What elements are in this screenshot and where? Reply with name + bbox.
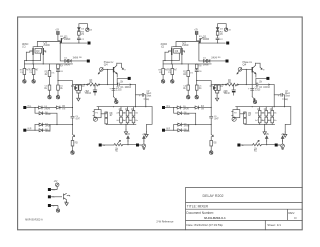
pad P4 xyxy=(48,188,56,191)
svg-text:R17: R17 xyxy=(82,85,85,88)
node row3 xyxy=(56,124,57,125)
svg-text:REV:: REV: xyxy=(288,211,295,215)
wire row1b xyxy=(43,107,56,109)
wire row3 xyxy=(35,124,73,126)
svg-text:1M: 1M xyxy=(62,108,65,110)
svg-text:2N3639: 2N3639 xyxy=(64,37,70,41)
svg-text:1%: 1% xyxy=(20,72,23,74)
bus upper xyxy=(97,106,152,108)
transistor Q7 xyxy=(63,193,69,204)
pad J1 xyxy=(23,106,32,109)
wire right loop xyxy=(147,107,153,132)
transistor Q1 xyxy=(60,37,64,43)
ground xyxy=(32,79,35,83)
node bus3 xyxy=(145,106,146,107)
wire r24 to q4 col xyxy=(100,84,114,86)
wire base drop xyxy=(107,69,109,84)
svg-text:R14: R14 xyxy=(60,65,63,68)
svg-text:R15: R15 xyxy=(71,85,74,88)
node rv2 xyxy=(72,124,73,125)
wire right col join xyxy=(77,90,80,95)
ground xyxy=(71,150,74,154)
diode D4 xyxy=(75,87,77,90)
ground xyxy=(142,144,146,150)
svg-text:2N3640: 2N3640 xyxy=(43,43,49,47)
resistor bank col1 xyxy=(119,107,123,116)
rail upper xyxy=(24,53,40,60)
svg-text:1N4148: 1N4148 xyxy=(64,65,70,67)
capacitor C14 xyxy=(109,86,122,91)
svg-text:(C): (C) xyxy=(22,45,25,49)
svg-text:+15V: +15V xyxy=(54,181,58,183)
wire collector loop xyxy=(117,63,122,67)
wire to pad xyxy=(71,60,87,62)
node rail xyxy=(84,84,85,85)
diode D7 xyxy=(38,123,51,127)
ground xyxy=(56,208,59,212)
resistor R4 xyxy=(78,31,85,35)
svg-text:Sheet: 1/1: Sheet: 1/1 xyxy=(267,223,281,227)
pad P6 xyxy=(48,204,55,207)
svg-text:Date: 8/24/2012 (07:33:59p: Date: 8/24/2012 (07:33:59p xyxy=(186,223,223,227)
diode D2 xyxy=(68,57,78,63)
wire row4b xyxy=(44,125,50,131)
wire left col drops xyxy=(24,61,33,69)
svg-text:22k: 22k xyxy=(123,113,126,115)
wire p6 xyxy=(51,206,58,209)
capacitor C17 xyxy=(136,90,152,107)
node branch xyxy=(57,80,58,81)
svg-text:10u: 10u xyxy=(44,87,47,90)
right channel (duplicate of left) xyxy=(159,24,291,155)
ground xyxy=(65,200,68,205)
connector J3 xyxy=(86,28,93,32)
wire out3 xyxy=(139,141,144,145)
wire pot drop xyxy=(97,107,99,110)
wire row1c xyxy=(61,107,73,109)
wire pot out xyxy=(101,112,106,114)
rail lower xyxy=(24,63,72,65)
diode D1 xyxy=(64,58,70,67)
node base xyxy=(107,69,108,70)
node rail2-q2 xyxy=(33,63,34,64)
wire top loop xyxy=(79,24,88,28)
capacitor C9 xyxy=(71,116,80,124)
wire base Q1 xyxy=(37,42,61,47)
svg-text:Document Number:: Document Number: xyxy=(186,211,214,215)
wire pwr stub1 xyxy=(127,141,129,145)
svg-text:+15V: +15V xyxy=(126,134,130,136)
diode D6 xyxy=(38,112,51,116)
resistor R16 xyxy=(56,106,66,110)
resistor R30 xyxy=(105,112,113,118)
emitter hook e xyxy=(121,67,126,71)
svg-text:R28: R28 xyxy=(75,142,78,144)
capacitor bank col1 xyxy=(116,112,126,124)
resistor R15 xyxy=(71,85,78,90)
wire row4 xyxy=(26,129,38,131)
wire row3 left xyxy=(34,125,36,131)
input connector P1 xyxy=(98,68,103,74)
wire left lead drop xyxy=(25,52,27,60)
bus lower xyxy=(106,123,136,125)
capacitor C2 xyxy=(77,35,84,43)
wire emitter row xyxy=(117,78,127,84)
wire right columns rail xyxy=(73,83,89,86)
capacitor C5 xyxy=(57,85,64,90)
wire right vert xyxy=(72,108,74,117)
wire q4 column xyxy=(113,72,115,96)
wire emitter run xyxy=(60,43,65,61)
resistor R11 xyxy=(45,71,55,77)
trimpot R31 xyxy=(114,140,123,152)
wire mid gnd stubs xyxy=(50,90,59,95)
node out xyxy=(127,144,128,145)
ground xyxy=(145,132,148,137)
power +15V xyxy=(126,134,130,141)
svg-text:2.2/25: 2.2/25 xyxy=(116,89,122,92)
dual transistor package Q2/Q3 xyxy=(34,47,43,54)
left-only extras xyxy=(25,181,174,224)
resistor R10 xyxy=(29,68,39,74)
pad OUT B xyxy=(136,144,139,147)
transistor Q3 bar xyxy=(43,47,46,64)
resistor R9 xyxy=(20,68,30,74)
wire collector row xyxy=(60,42,86,44)
capacitor C4 xyxy=(44,85,51,90)
border frame xyxy=(18,17,303,230)
wire branch to right xyxy=(58,81,73,108)
capacitor bank col3 xyxy=(129,112,139,124)
wire out2 xyxy=(123,144,136,146)
node rail-left xyxy=(26,60,27,61)
svg-text:270: 270 xyxy=(81,33,84,36)
svg-text:+15V: +15V xyxy=(142,134,146,136)
node rv xyxy=(72,107,73,108)
wire q2 bottom drop xyxy=(32,55,34,64)
svg-text:10u: 10u xyxy=(60,87,63,90)
diode D8 xyxy=(38,129,51,133)
svg-text:+15V: +15V xyxy=(55,27,59,31)
title block text xyxy=(186,194,297,227)
svg-text:22k: 22k xyxy=(116,113,119,115)
node d5 xyxy=(34,107,35,108)
svg-text:MXR-05-R202-A: MXR-05-R202-A xyxy=(25,218,43,222)
svg-text:TITLE: MIXER: TITLE: MIXER xyxy=(187,205,209,209)
diode D3 xyxy=(78,28,85,32)
pad OUT A xyxy=(99,144,102,147)
wire gnd stubs left pair xyxy=(24,75,33,80)
pot P2 circle xyxy=(93,117,97,121)
ground xyxy=(56,95,59,99)
svg-text:1%: 1% xyxy=(29,72,32,74)
power +15V b xyxy=(142,134,146,141)
svg-text:1N4148: 1N4148 xyxy=(45,131,51,133)
node d8 xyxy=(34,130,35,131)
pad xyxy=(88,42,91,45)
wire rv lower xyxy=(72,125,74,135)
resistor R28 xyxy=(71,137,78,146)
node rail2-q3 xyxy=(43,63,44,64)
wire row2b xyxy=(44,113,57,124)
pad J2 xyxy=(23,129,31,132)
down arrow xyxy=(114,97,117,100)
wire r28 down xyxy=(72,146,74,151)
node bus1 xyxy=(113,106,114,107)
capacitor C15 xyxy=(85,85,96,96)
ground xyxy=(48,95,51,99)
wire base Q4 xyxy=(103,68,113,70)
resistor bank col3 xyxy=(131,107,135,116)
wire out1 xyxy=(102,144,114,146)
title block xyxy=(186,188,303,230)
wire gnd drop1 xyxy=(125,124,127,129)
node r4-c2 xyxy=(78,42,79,43)
pad xyxy=(87,60,90,63)
resistor R17 xyxy=(79,85,85,90)
left-channel group xyxy=(20,24,152,155)
svg-text:R31: R31 xyxy=(115,151,118,153)
wire mid columns xyxy=(50,64,59,71)
wire mid columns lower xyxy=(50,77,59,85)
capacitor C16 xyxy=(114,83,136,89)
svg-text:1N4148: 1N4148 xyxy=(45,114,51,116)
transistor Q2 bar xyxy=(26,47,33,55)
svg-text:Q4: Q4 xyxy=(104,62,108,66)
svg-text:100/16: 100/16 xyxy=(85,92,91,95)
node bus2 xyxy=(135,106,136,107)
transistor Q4 xyxy=(113,63,117,77)
ground xyxy=(23,79,26,83)
pad xyxy=(128,77,131,80)
resistor R24 zigzag xyxy=(87,79,100,86)
wire c16 drop xyxy=(135,85,137,107)
svg-text:1N4148: 1N4148 xyxy=(44,108,50,110)
relay K1 box xyxy=(93,110,101,118)
svg-text:M-C9-R202-0-1: M-C9-R202-0-1 xyxy=(204,216,226,220)
ground xyxy=(77,96,80,101)
resistor bank col2 xyxy=(125,107,129,116)
svg-text:O.Swap: O.Swap xyxy=(144,99,150,101)
wire p5 xyxy=(51,196,62,198)
ground arrow mid xyxy=(73,134,75,136)
ground xyxy=(124,129,127,134)
svg-text:.0047: .0047 xyxy=(75,118,80,120)
svg-text:1%: 1% xyxy=(51,72,54,74)
node busL xyxy=(125,124,126,125)
ground xyxy=(115,100,118,104)
wire row1 xyxy=(26,107,38,109)
svg-text:DELAY R202: DELAY R202 xyxy=(202,194,223,198)
svg-text:1000/16: 1000/16 xyxy=(125,87,132,89)
wire p4 xyxy=(51,187,57,190)
node rail-q2 xyxy=(33,60,34,61)
diode D5 xyxy=(38,106,51,110)
svg-text:2-W Reference: 2-W Reference xyxy=(156,219,174,223)
svg-text:Short: Short xyxy=(147,94,152,97)
resistor R14 xyxy=(57,64,63,68)
svg-text:1N4148: 1N4148 xyxy=(73,57,79,60)
resistor R32 xyxy=(105,118,108,125)
+15V rail xyxy=(55,27,60,40)
svg-text:Q3: Q3 xyxy=(36,49,40,53)
capacitor bank col2 xyxy=(123,112,133,124)
svg-text:22k: 22k xyxy=(129,113,132,115)
node base drop xyxy=(107,84,108,85)
capacitor C6 xyxy=(56,69,63,81)
pad P5 xyxy=(48,195,55,198)
wire row2 drop xyxy=(35,108,38,114)
